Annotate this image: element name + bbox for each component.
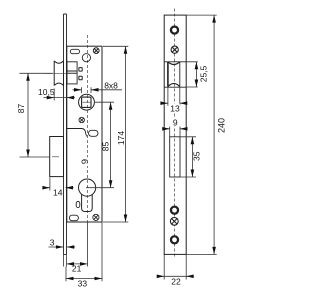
svg-text:35: 35 (192, 151, 202, 161)
follower square 8x8 (82, 97, 91, 107)
svg-text:25,5: 25,5 (199, 65, 209, 82)
svg-text:174: 174 (116, 131, 126, 145)
lower box center line (52, 156, 59, 158)
screw below follower (79, 117, 84, 122)
text backgrounds (81, 104, 180, 166)
dim 22 lines (157, 254, 194, 279)
svg-text:9: 9 (173, 117, 178, 127)
latch bolt (side) (54, 61, 63, 86)
mid oval slot (89, 130, 99, 136)
arrows 33 (66, 277, 102, 281)
svg-text:3: 3 (50, 237, 55, 247)
dim 10,5 lines (44, 89, 75, 101)
arrows 14 (42, 186, 73, 190)
right view plate (164, 15, 186, 254)
screw bottom-case (93, 214, 99, 220)
arrows 3 (56, 245, 74, 249)
ring hole bottom2 (171, 236, 178, 243)
ring hole bottom1 (171, 207, 178, 214)
small square hole B (79, 76, 82, 79)
arrows 87 (26, 73, 30, 157)
euro cylinder circle (79, 179, 96, 196)
dim 13 lines (161, 87, 187, 106)
arrows 13 (160, 101, 187, 105)
dim 3 lines (49, 247, 76, 267)
arrows 35 (191, 137, 195, 177)
latch head front (167, 62, 169, 87)
svg-text:8x8: 8x8 (104, 80, 118, 90)
dim 33 lines (66, 222, 102, 281)
svg-text:85: 85 (101, 142, 111, 152)
dimension labels (16, 65, 209, 288)
arrows 9 (162, 127, 187, 131)
arrows 85 (109, 102, 113, 188)
arrows 10,5 (47, 96, 74, 100)
dim 8x8 lines (73, 87, 123, 93)
plate cutout (170, 137, 180, 177)
centerline left view (86, 35, 88, 222)
dim 240 lines (186, 15, 217, 254)
lower box (50, 137, 64, 177)
follower circle (79, 94, 95, 110)
latch tail block (67, 62, 77, 84)
arrowheads (26, 15, 216, 280)
svg-text:9: 9 (80, 159, 91, 164)
dim 25,5 lines (186, 62, 198, 87)
dim 85 lines (86, 102, 114, 188)
faceplate (side view) (64, 14, 67, 254)
dim 21 lines (66, 222, 88, 281)
euro cylinder stem (82, 194, 93, 211)
dim 9 lines (164, 127, 187, 137)
svg-text:22: 22 (171, 277, 181, 287)
arrows 25,5 (195, 62, 199, 87)
center lines dashed (87, 9, 174, 259)
small slot left of cylinder (76, 202, 80, 208)
svg-text:240: 240 (216, 118, 226, 133)
svg-text:14: 14 (53, 187, 63, 197)
top hole (82, 54, 90, 62)
screw right-bottom (170, 217, 178, 225)
dim 14 lines (44, 178, 74, 191)
arrows 22 (157, 275, 194, 279)
arrows 240 (212, 15, 216, 254)
follower center line (83, 101, 92, 103)
step line (67, 129, 88, 137)
svg-text:10,5: 10,5 (38, 87, 55, 97)
screw U-top (93, 48, 99, 54)
dim 35 lines (181, 137, 197, 177)
svg-text:13: 13 (170, 104, 180, 114)
lock case body (67, 46, 102, 222)
centerline right view (174, 9, 176, 259)
svg-text:33: 33 (78, 278, 88, 288)
ring hole top (171, 27, 178, 34)
bottom oval slot (69, 215, 78, 221)
dim 174 lines (103, 46, 128, 222)
top oval slot (70, 49, 79, 53)
small square hole A (79, 68, 82, 72)
arrows 8x8 (74, 88, 99, 92)
svg-text:87: 87 (16, 104, 26, 114)
latch opening lines (164, 62, 186, 87)
dim 87 lines (20, 73, 53, 157)
screw right-top (171, 46, 178, 53)
arrows 174 (124, 46, 128, 222)
arrows 21 (67, 262, 88, 266)
dimension lines (20, 15, 217, 281)
latch axis line (44, 72, 77, 74)
svg-text:21: 21 (72, 264, 82, 274)
